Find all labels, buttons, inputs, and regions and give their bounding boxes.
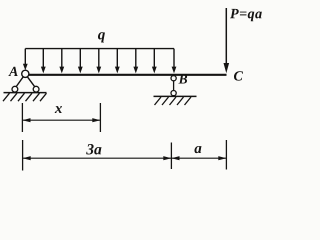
label a <box>194 146 201 153</box>
bottom dimension middle extension tick <box>170 143 172 170</box>
a dimension left arrowhead <box>171 156 179 160</box>
support B bottom circle <box>171 91 176 96</box>
distributed load arrow 1 <box>23 49 28 71</box>
distributed load arrow 8 <box>152 49 157 74</box>
a dimension right arrowhead <box>218 156 226 160</box>
support A ground line <box>4 92 47 94</box>
bottom dimension right extension tick <box>225 140 227 170</box>
label 3a <box>86 144 101 154</box>
x dimension left extension tick <box>21 103 23 132</box>
x dimension left arrowhead <box>22 118 30 122</box>
label C <box>234 71 243 80</box>
bottom dimension left extension tick <box>22 140 24 171</box>
support A right leg <box>27 77 34 87</box>
label B <box>178 75 187 84</box>
support A pin: apex hinge circle <box>22 70 29 77</box>
label A <box>8 67 17 76</box>
support A left leg <box>16 77 23 87</box>
3a dimension left arrowhead <box>23 156 31 160</box>
distributed load arrow 5 <box>96 49 101 74</box>
beam A-B-C <box>25 74 227 76</box>
x dimension line <box>22 119 100 121</box>
support A ground hatching <box>3 93 47 101</box>
distributed load arrow 7 <box>133 49 138 74</box>
distributed load arrow 6 <box>115 49 120 74</box>
support B ground hatching <box>155 97 192 105</box>
label x <box>55 106 62 113</box>
support A right foot circle <box>33 86 39 92</box>
distributed load arrow 9 <box>172 49 177 74</box>
a dimension line <box>171 157 226 159</box>
label P=qa <box>230 9 262 21</box>
distributed load top line <box>25 48 174 50</box>
3a dimension line <box>23 157 172 159</box>
distributed load arrow 3 <box>59 49 64 74</box>
support A left foot circle <box>12 86 18 92</box>
distributed load arrow 4 <box>78 49 83 74</box>
support B roller: top hinge circle <box>171 76 176 81</box>
support B link bar <box>173 81 175 91</box>
x dimension right arrowhead <box>92 118 100 122</box>
distributed load arrow 2 <box>41 49 46 74</box>
point load P arrow at C <box>224 8 230 73</box>
3a dimension right arrowhead <box>163 156 171 160</box>
support B ground line <box>154 95 197 97</box>
label q (distributed load) <box>98 32 105 42</box>
x dimension right extension tick <box>99 103 101 132</box>
